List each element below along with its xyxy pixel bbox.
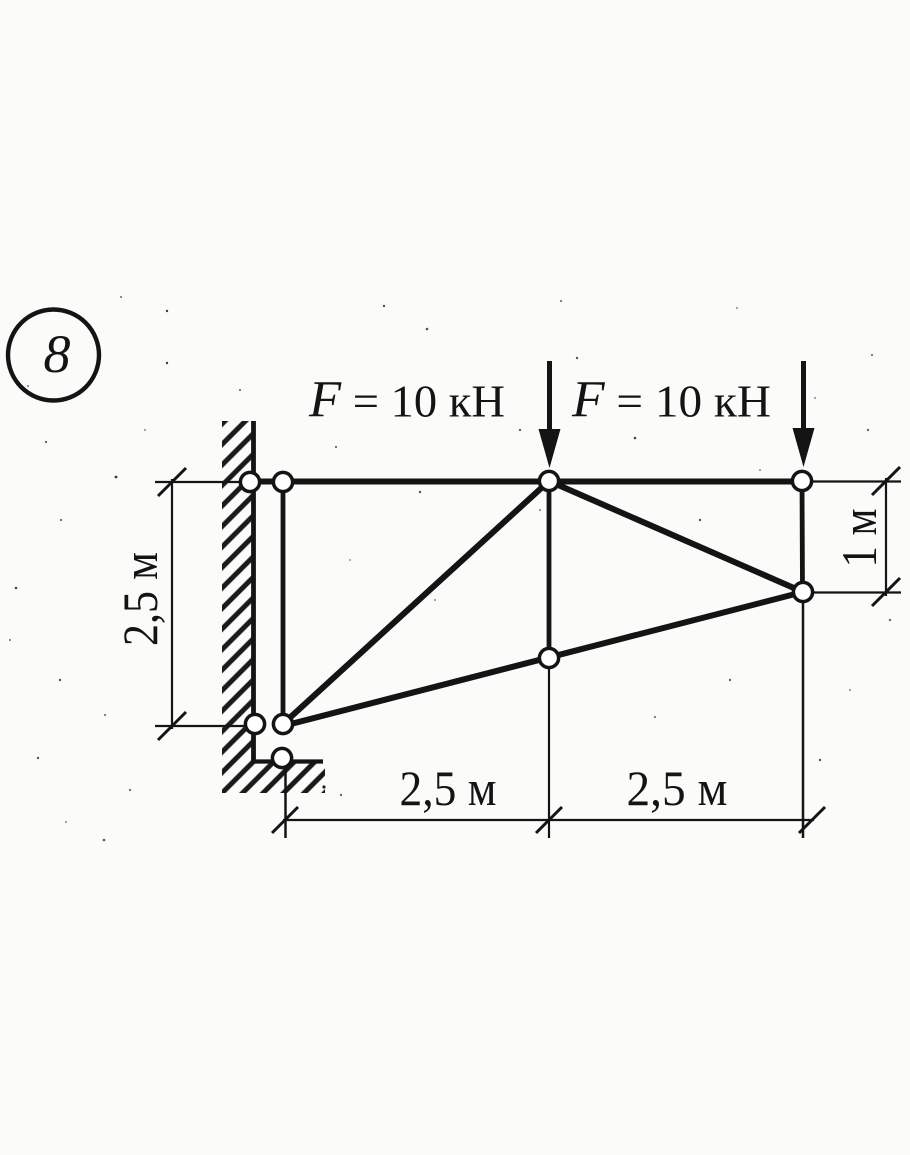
svg-text:F = 10 кН: F = 10 кН [308, 372, 505, 429]
svg-text:F = 10 кН: F = 10 кН [571, 372, 771, 429]
svg-text:2,5 м: 2,5 м [627, 760, 728, 816]
svg-text:1 м: 1 м [831, 509, 887, 568]
svg-text:8: 8 [44, 324, 71, 384]
svg-text:2,5 м: 2,5 м [112, 552, 168, 646]
svg-text:2,5 м: 2,5 м [400, 760, 497, 816]
